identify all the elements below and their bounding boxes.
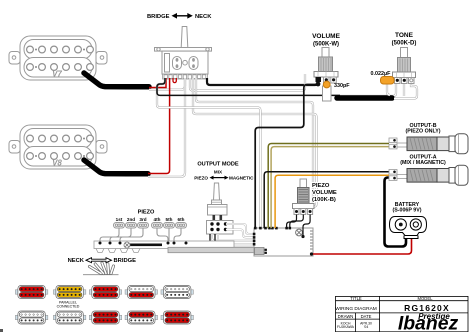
wire red bridge to switch (148, 78, 170, 174)
wires piezo pot to PCB (287, 215, 311, 236)
wire gray switch to volume casing (190, 74, 305, 91)
wire gray tone lug3 loop to bar (394, 81, 417, 99)
svg-text:5th: 5th (166, 217, 173, 222)
wire black PCB to jack A (264, 172, 389, 228)
pickup icon position 1 neck pickup (series) (15, 286, 47, 299)
tone lug3 (409, 78, 415, 84)
tone lug2 (402, 78, 408, 84)
pickup icon position 4 neck pickup inner coil (125, 286, 157, 299)
piezo saddles 1st-6th (114, 223, 187, 229)
jack J2 OUTPUT-B (389, 134, 468, 154)
wire neck cable thick (84, 73, 149, 87)
wire black battery to jack A (385, 178, 407, 247)
svg-text:V7: V7 (52, 70, 62, 79)
pickup icon position 3 neck pickup (89, 286, 121, 299)
5-way positions fan icon (83, 263, 119, 275)
svg-text:6th: 6th (178, 217, 185, 222)
screw on PCB (296, 229, 303, 236)
title block (336, 296, 469, 331)
svg-text:BRIDGE: BRIDGE (147, 14, 170, 20)
capacitor C1 330pF (323, 81, 351, 101)
pickup bridge V8 (9, 125, 107, 169)
svg-text:(500K-D): (500K-D) (392, 41, 417, 47)
svg-text:PIEZO: PIEZO (312, 183, 330, 189)
potentiometer VOLUME 500K-W (312, 33, 340, 83)
shield bar thick between pots (337, 95, 392, 101)
svg-text:FUJIKAWA: FUJIKAWA (337, 325, 355, 329)
piezo saddle labels (116, 217, 185, 222)
wire gray switch to tone lug1 (340, 80, 396, 96)
svg-text:TONE: TONE (395, 32, 414, 39)
svg-text:'04: '04 (364, 325, 369, 329)
svg-text:4th: 4th (154, 217, 161, 222)
screw on strip (124, 242, 130, 248)
svg-text:WIRING DIAGRAM: WIRING DIAGRAM (335, 306, 377, 312)
volume lug3 (331, 77, 337, 83)
pickup icon position 3 bridge pickup (89, 311, 121, 324)
wire black switch to shield bar and tone (157, 78, 340, 95)
PCB edge contacts right (310, 231, 313, 249)
terminal board under toggle (207, 221, 234, 235)
wire khaki PCB to jack B (271, 147, 389, 228)
potentiometer TONE 500K-D (392, 32, 417, 84)
PCB preamp board (253, 227, 313, 256)
pickup icon position 1 bridge pickup off (15, 311, 47, 324)
ribbon connector on PCB (255, 248, 265, 255)
potentiometer PIEZO VOLUME 100K-B (293, 179, 337, 215)
svg-text:(MIX / MAGNETIC): (MIX / MAGNETIC) (400, 160, 446, 166)
svg-text:PIEZO: PIEZO (138, 210, 155, 216)
junction dot volume lug1 (316, 82, 321, 87)
svg-text:VOLUME: VOLUME (312, 190, 337, 196)
wire black PCB riser to volume lug1 (255, 85, 316, 229)
wire red PCB to battery (313, 239, 412, 254)
wire white bridge to switch (148, 78, 185, 177)
piezo terminal strip (94, 241, 234, 253)
wire gray tone lug2 down to bar (403, 81, 405, 96)
svg-text:(S-006P 9V): (S-006P 9V) (392, 208, 421, 214)
wire black board down to ribbon (210, 234, 262, 248)
switch terminal strip (163, 74, 208, 79)
svg-text:NECK: NECK (68, 258, 85, 264)
pickup icon position 5 bridge pickup (161, 311, 193, 324)
svg-text:2nd: 2nd (127, 217, 135, 222)
switch SW1 5-way lever (155, 27, 212, 75)
piezo pot lugs (294, 209, 299, 215)
svg-text:BRIDGE: BRIDGE (114, 258, 137, 264)
label OUTPUT MODE (194, 162, 254, 181)
wire bridge cable thick (84, 160, 148, 174)
svg-text:V8: V8 (52, 159, 62, 168)
wire gray switch down to piezo volume casing (193, 78, 317, 207)
pickup icon position 4 bridge pickup outer coil (125, 311, 157, 324)
svg-text:(PIEZO ONLY): (PIEZO ONLY) (405, 129, 440, 135)
switch SW2 output mode toggle (208, 183, 228, 221)
svg-text:TITLE: TITLE (350, 296, 362, 301)
svg-text:CONNECTED: CONNECTED (57, 305, 80, 309)
svg-text:0.022µF: 0.022µF (371, 71, 392, 77)
wire gray cap lead down (387, 84, 390, 95)
wires toggle board to PCB left (210, 224, 262, 251)
wire gray switch down to PCB (157, 78, 260, 228)
svg-text:330pF: 330pF (334, 83, 350, 89)
wire red neck to switch (149, 78, 166, 88)
battery clip B1 (390, 217, 427, 239)
wire white neck to switch (149, 78, 185, 90)
svg-text:Prestige: Prestige (418, 312, 450, 321)
label parallel connected (57, 301, 80, 309)
wire gray switch down to piezo volume base (196, 78, 313, 204)
svg-text:(500K-W): (500K-W) (313, 42, 339, 48)
wire orange PCB to jack A (275, 175, 389, 228)
wire red jumper U on switch (173, 78, 176, 83)
ribbon cable strip to PCB (168, 247, 254, 252)
svg-text:NECK: NECK (195, 14, 212, 20)
jack J1 OUTPUT-A (389, 165, 468, 185)
svg-text:1st: 1st (116, 217, 123, 222)
svg-text:DRAWN: DRAWN (338, 314, 354, 319)
svg-text:3rd: 3rd (139, 217, 146, 222)
svg-text:PIEZO: PIEZO (194, 176, 208, 181)
wire black switch to volume lug1 (207, 77, 318, 85)
svg-text:VOLUME: VOLUME (312, 33, 340, 40)
page artifact speck (0, 329, 3, 332)
label BRIDGE-NECK above switch (147, 13, 212, 20)
svg-text:DATE: DATE (361, 314, 372, 319)
pickup icon position 2 bridge pickup off (53, 311, 85, 324)
pickup icon position 5 neck pickup off (161, 286, 193, 299)
svg-text:MODEL: MODEL (418, 296, 434, 301)
svg-text:(100K-B): (100K-B) (312, 197, 336, 203)
svg-text:MAGNETIC: MAGNETIC (229, 176, 254, 181)
saddle wires down to strip (100, 228, 181, 242)
capacitor C2 0.022uF (371, 71, 395, 84)
svg-text:OUTPUT MODE: OUTPUT MODE (197, 162, 239, 168)
wire olive PCB to jack B (268, 144, 389, 229)
svg-text:MIX: MIX (214, 170, 223, 175)
volume lug1 soldered (316, 77, 322, 82)
pickup icon position 2 neck pickup (parallel connected) (53, 286, 85, 299)
tone lug1 (395, 78, 401, 84)
mini pickup grid (15, 286, 193, 325)
volume lug2 (324, 77, 330, 83)
pickup neck V7 (9, 36, 107, 80)
label NECK-BRIDGE bottom (68, 258, 137, 265)
